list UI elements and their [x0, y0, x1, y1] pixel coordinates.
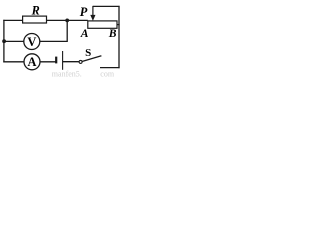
rheostat P box	[88, 21, 117, 28]
svg-text:A: A	[28, 55, 37, 69]
battery short plate	[55, 57, 57, 64]
svg-text:P: P	[80, 5, 88, 19]
voltmeter V circle	[24, 34, 40, 50]
wire top right horizontal	[93, 5, 120, 7]
wire battery to switch	[63, 61, 79, 63]
rheostat wiper stem	[92, 6, 94, 16]
wire bottom right	[100, 67, 120, 69]
wire voltmeter branch right	[40, 20, 68, 41]
wire left vertical	[3, 20, 5, 63]
resistor R box	[23, 16, 47, 23]
wire right vertical	[118, 6, 120, 68]
wire rheostat B terminal stub	[117, 24, 120, 26]
svg-text:V: V	[27, 35, 36, 49]
svg-text:S: S	[85, 47, 91, 59]
wire voltmeter branch left	[4, 40, 24, 42]
switch S blade	[82, 56, 101, 62]
wire ammeter branch left	[3, 61, 24, 63]
svg-text:manfen5.: manfen5.	[52, 69, 82, 78]
battery long plate	[62, 51, 64, 70]
wire ammeter to battery	[40, 61, 57, 63]
node junction dot left	[2, 39, 6, 43]
switch S pivot	[79, 60, 82, 63]
ammeter A circle	[24, 54, 40, 70]
rheostat wiper arrowhead	[90, 15, 95, 21]
node junction dot top	[65, 19, 69, 23]
svg-text:A: A	[80, 27, 89, 40]
svg-text:B: B	[108, 27, 117, 40]
svg-text:R: R	[31, 4, 40, 18]
wire top horizontal	[3, 19, 88, 21]
svg-text:com: com	[100, 69, 115, 78]
